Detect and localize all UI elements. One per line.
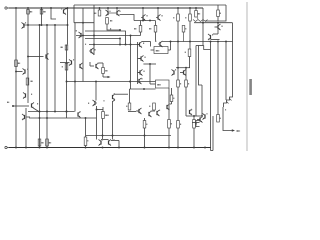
wire v203 bbox=[202, 8, 204, 23]
transistor Q35 bbox=[199, 117, 201, 121]
wire v94 bbox=[93, 5, 95, 55]
transistor Q21 bbox=[140, 56, 142, 60]
resistor R13 bbox=[102, 68, 105, 74]
V+ rail bbox=[9, 7, 203, 9]
wire mid2 long bbox=[67, 81, 156, 83]
wire v196 bbox=[195, 46, 197, 117]
wire y22 right bbox=[194, 22, 233, 24]
wire v83 bbox=[82, 8, 84, 82]
diode row bbox=[193, 20, 208, 22]
resistor R8 bbox=[139, 26, 142, 33]
resistor R10 bbox=[177, 14, 180, 21]
transistor Q10 bbox=[80, 33, 82, 37]
wire q8 drop bbox=[34, 109, 40, 113]
wire v28 bbox=[27, 8, 29, 103]
wire y39 bbox=[211, 39, 220, 41]
wire out drop bbox=[223, 107, 234, 131]
V- terminal bbox=[5, 146, 7, 148]
wire v67 top bbox=[67, 8, 69, 45]
wire v169 bbox=[168, 88, 170, 120]
wire v178 bbox=[177, 21, 179, 80]
resistor R6 bbox=[106, 18, 109, 25]
transistor Q15 bbox=[112, 95, 114, 99]
staircase bbox=[224, 95, 233, 108]
transistor Q2 bbox=[107, 11, 109, 15]
wire upper bus bbox=[74, 4, 226, 6]
resistor R19 bbox=[143, 121, 146, 129]
transistor Q1 bbox=[63, 9, 65, 13]
resistor R21 bbox=[185, 80, 188, 87]
resistor R4 bbox=[26, 78, 29, 85]
wire comb2 bbox=[217, 42, 219, 115]
transistor Q22 bbox=[139, 70, 141, 74]
transistor Q29 bbox=[173, 70, 175, 74]
part number bbox=[249, 79, 252, 95]
resistor R5 bbox=[98, 10, 101, 16]
transistor Q9 bbox=[24, 115, 26, 119]
capacitor C1 bbox=[156, 80, 170, 88]
wire rh1 bbox=[151, 49, 155, 51]
wire y66 bbox=[90, 65, 94, 67]
resistor R15 bbox=[102, 112, 105, 119]
wire y31 bbox=[85, 31, 126, 45]
resistor R2 bbox=[40, 10, 43, 15]
transistor Q11b bbox=[79, 64, 81, 68]
transistor Q16 bbox=[100, 140, 102, 144]
transistor Q30 bbox=[183, 70, 185, 74]
wire y111 bbox=[128, 111, 136, 113]
resistor R11a bbox=[189, 14, 192, 21]
transistor Q31 bbox=[189, 110, 191, 114]
resistor R27 bbox=[46, 139, 49, 146]
balance arrow bbox=[103, 76, 109, 78]
wire v137 bbox=[137, 42, 139, 84]
transistor Q33 bbox=[210, 35, 212, 39]
wire v213 bbox=[212, 116, 214, 151]
wire loop bottom bbox=[211, 150, 214, 152]
transistor Q13 bbox=[95, 64, 97, 68]
wire base bus bbox=[134, 20, 156, 22]
resistor R12 bbox=[217, 10, 220, 17]
transistor Q11a bbox=[71, 60, 73, 64]
V+ terminal bbox=[5, 7, 7, 9]
wire v39 bbox=[39, 25, 41, 148]
wire jog bbox=[51, 8, 56, 19]
wire comb3 bbox=[225, 42, 227, 101]
wire y136 bbox=[86, 135, 171, 137]
resistor R17 bbox=[128, 103, 131, 110]
wire pair link bbox=[204, 46, 211, 50]
resistor R21b bbox=[177, 121, 180, 129]
wire v198 bbox=[199, 46, 203, 86]
resistor R9 bbox=[154, 26, 157, 33]
wire r6 link bbox=[107, 24, 120, 30]
transistor Q4 bbox=[45, 54, 47, 58]
transistor Q6 bbox=[24, 69, 26, 73]
resistor R18 bbox=[153, 103, 156, 110]
resistor Rh1 bbox=[154, 47, 168, 54]
transistor Q24 bbox=[159, 42, 161, 46]
wire v170 bbox=[170, 42, 172, 51]
wire v130 bbox=[130, 36, 132, 90]
wire v202 bbox=[201, 85, 203, 116]
wire y42 bbox=[162, 41, 232, 43]
transistor Q34 bbox=[204, 114, 206, 118]
resistor R23 bbox=[168, 120, 171, 129]
transistor Q12 bbox=[90, 49, 92, 53]
wire y122 bbox=[192, 122, 200, 124]
figure border bbox=[246, 2, 248, 151]
transistor Q27 bbox=[148, 112, 150, 116]
transistor Q18 bbox=[142, 15, 144, 19]
resistor R11 bbox=[195, 11, 198, 18]
resistor R20 bbox=[177, 80, 180, 87]
wire v46 bbox=[46, 25, 48, 148]
label smudges bbox=[110, 11, 111, 12]
wire v232 bbox=[232, 23, 234, 95]
wire y64 bbox=[143, 63, 156, 65]
resistor R11b bbox=[182, 26, 185, 33]
transistor Q25 bbox=[166, 105, 168, 109]
wire v190 bbox=[189, 21, 191, 49]
wire v178b bbox=[177, 87, 179, 121]
resistor R26 bbox=[38, 139, 41, 146]
resistor R7b bbox=[65, 64, 68, 71]
wire pair top bbox=[196, 45, 204, 47]
wire left rail bbox=[15, 8, 17, 148]
resistor R25 bbox=[193, 120, 196, 129]
wire q3 collector bbox=[120, 15, 135, 21]
resistor R1 bbox=[27, 10, 30, 15]
transistor Q5 bbox=[23, 23, 25, 27]
resistor R16 bbox=[170, 95, 173, 102]
wire lower left2 bbox=[29, 117, 97, 119]
transistor Q19 bbox=[157, 15, 159, 19]
transistor Q32 bbox=[217, 25, 219, 29]
resistor R28 bbox=[84, 137, 87, 146]
wire v144 bbox=[144, 118, 146, 121]
input terminal bbox=[12, 105, 14, 107]
wire lower left bbox=[28, 111, 75, 113]
transistor Q7 bbox=[25, 93, 27, 97]
wire v41 bbox=[41, 8, 43, 25]
wire v96 bbox=[95, 82, 97, 101]
wire bias bbox=[23, 24, 68, 26]
wire bus drop right bbox=[205, 5, 226, 21]
wire q15 c bbox=[113, 100, 115, 102]
wire v102 bbox=[102, 119, 104, 140]
out label bbox=[237, 130, 241, 131]
wire y41b bbox=[142, 41, 151, 43]
wire v55 bbox=[54, 25, 56, 112]
wire v75 bbox=[73, 5, 75, 23]
wire v186 bbox=[185, 68, 187, 80]
resistor R7 bbox=[65, 45, 68, 50]
transistor Q8 bbox=[31, 103, 33, 107]
transistor Q26 bbox=[138, 109, 140, 113]
wire y116 bbox=[186, 115, 202, 117]
wire y35 bbox=[76, 35, 141, 37]
resistor R3 bbox=[15, 60, 18, 67]
out arrow bbox=[232, 129, 235, 131]
wire y22 bbox=[74, 22, 94, 24]
transistor Qx bbox=[77, 112, 79, 116]
wire y67 bbox=[176, 67, 190, 69]
transistor Q20 bbox=[139, 42, 141, 46]
transistor Q28 bbox=[156, 111, 158, 115]
corner steps bbox=[196, 121, 200, 127]
wire v186b bbox=[185, 87, 187, 116]
wire y38 bbox=[85, 39, 120, 45]
wire v112 bbox=[112, 101, 114, 140]
wire y89 bbox=[130, 88, 156, 90]
wire q4 base bbox=[28, 56, 44, 58]
wire c1 in bbox=[149, 64, 151, 84]
transistor Q17 bbox=[108, 140, 110, 144]
wire v66 bot bbox=[66, 45, 68, 119]
wire comb1 bbox=[210, 42, 212, 151]
transistor Q14 bbox=[94, 101, 96, 105]
transistor Q3 bbox=[116, 11, 118, 15]
resistor R22b bbox=[188, 49, 191, 57]
wire mid long bbox=[89, 44, 138, 46]
V- rail bbox=[9, 147, 211, 149]
transistor Q23 bbox=[138, 79, 140, 83]
